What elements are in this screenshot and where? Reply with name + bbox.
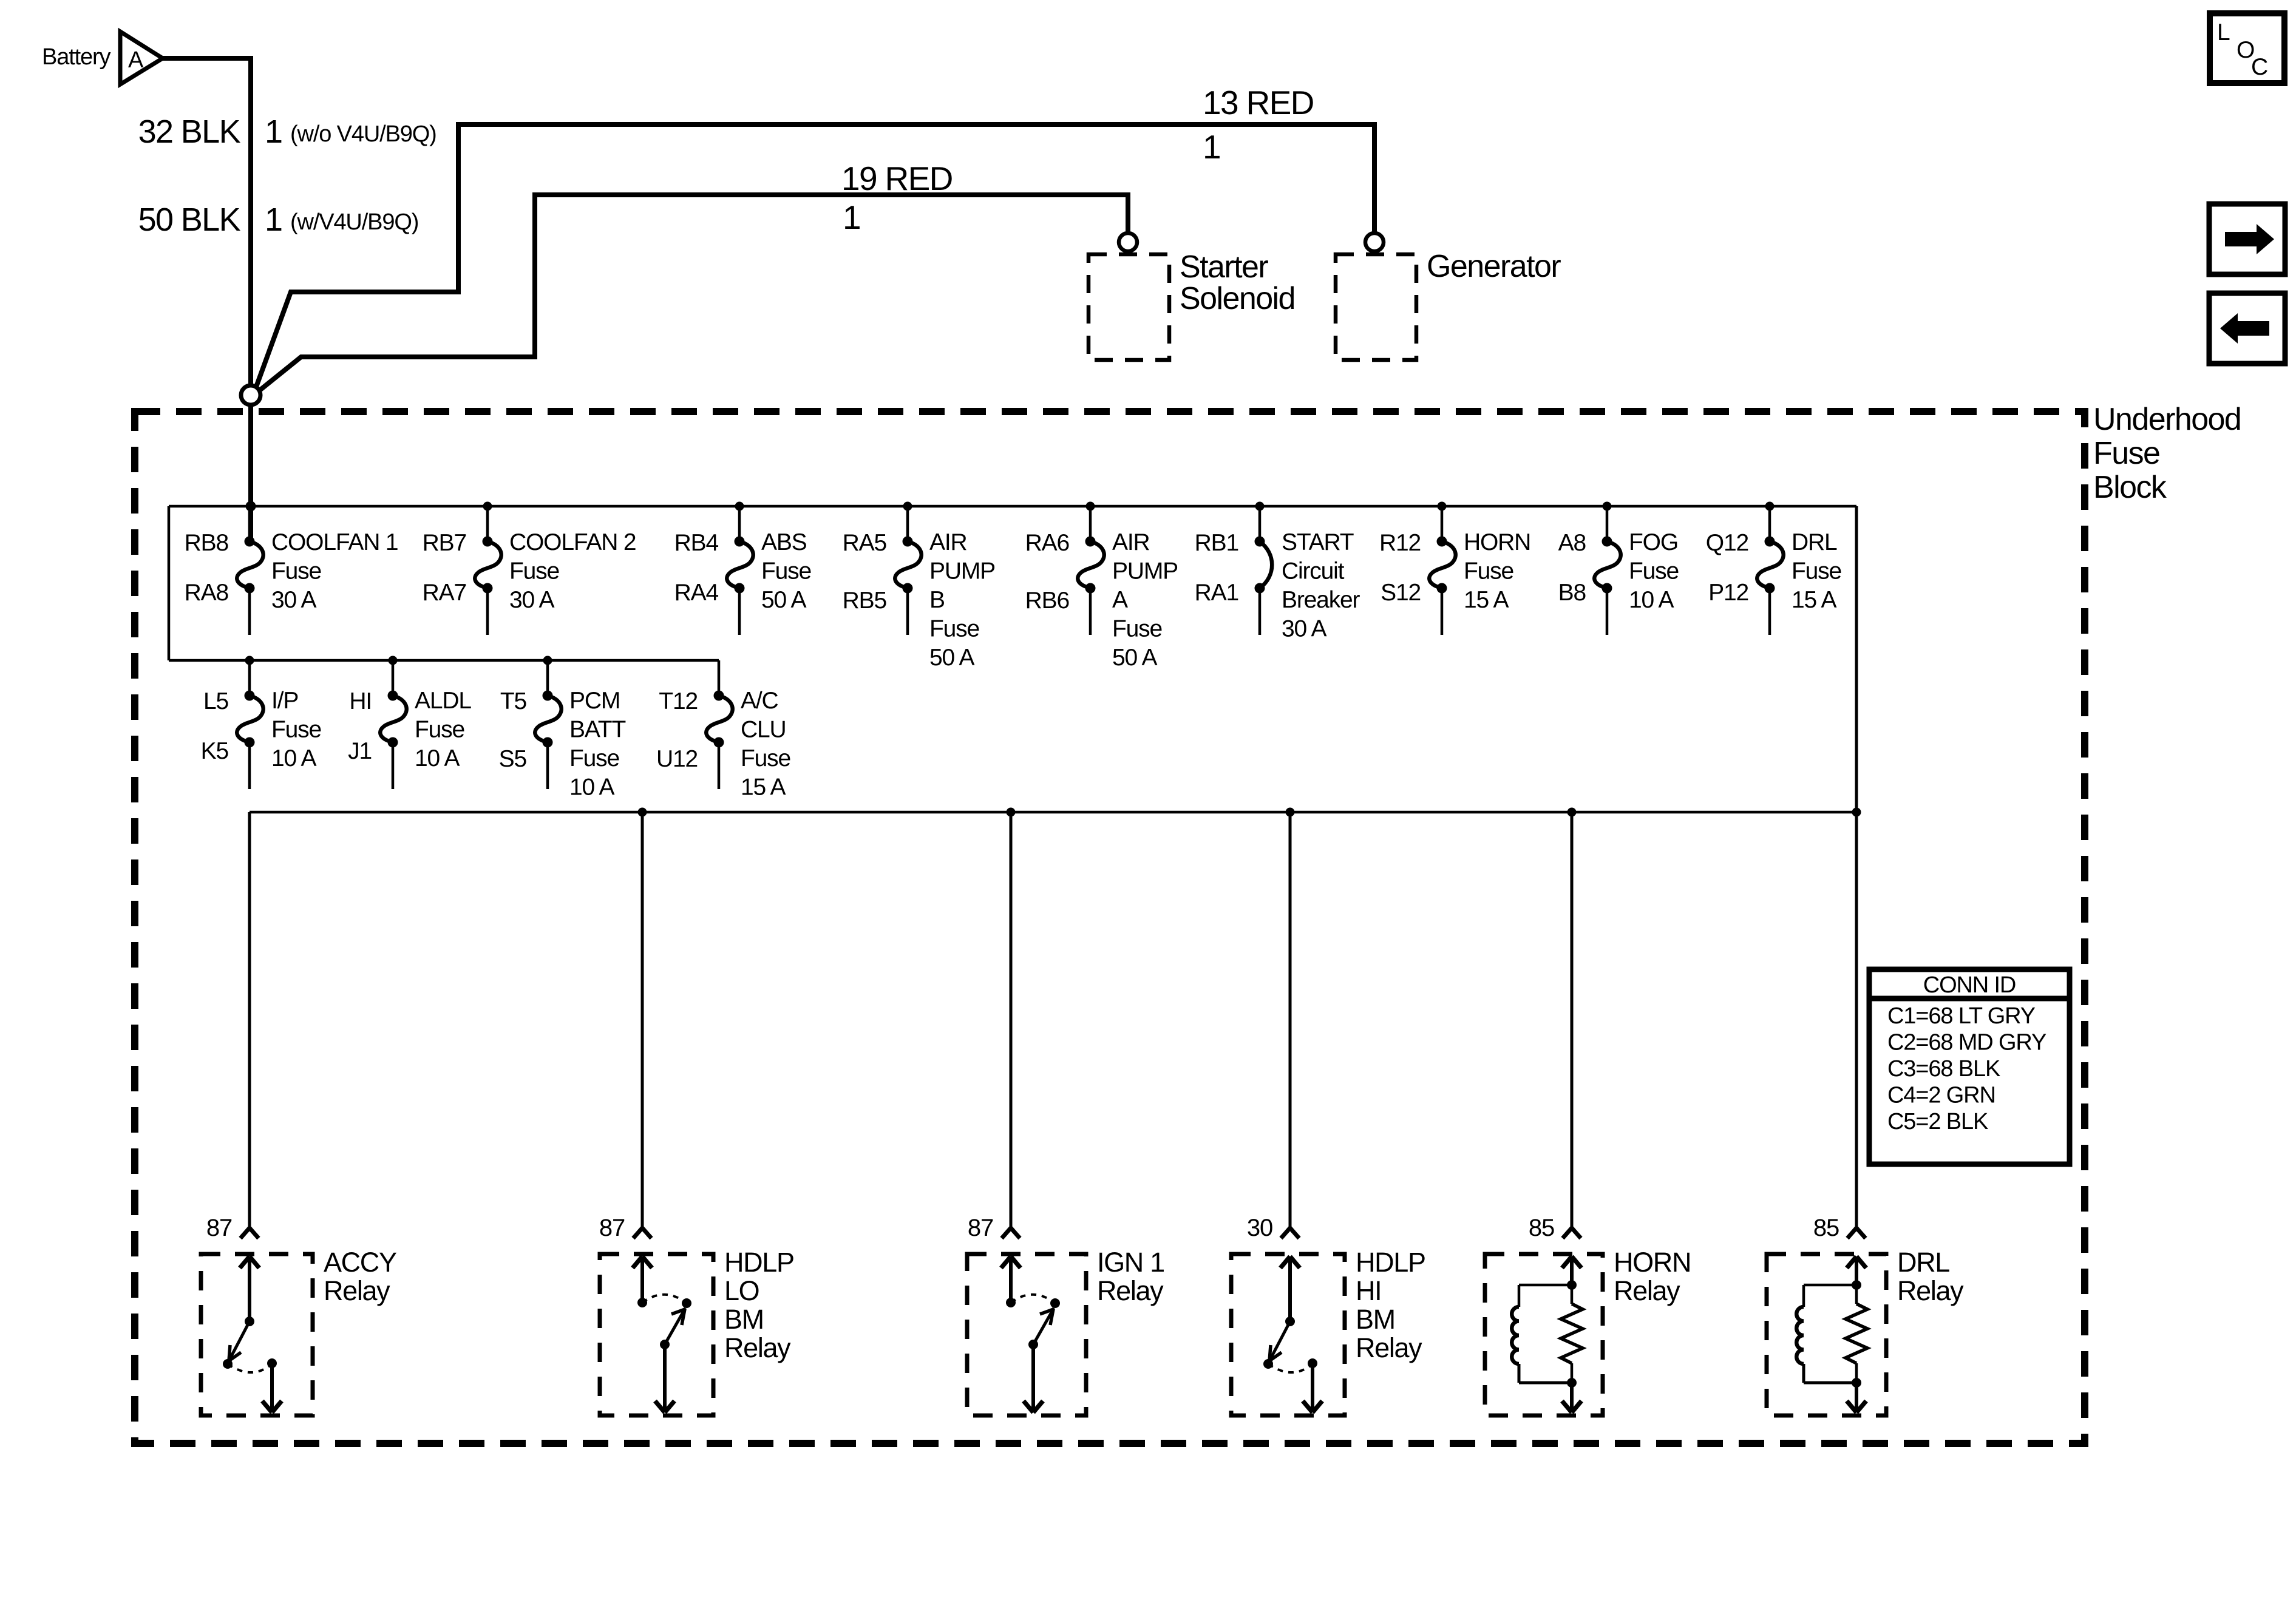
svg-text:PCM: PCM — [569, 688, 620, 714]
svg-text:COOLFAN 1: COOLFAN 1 — [271, 529, 398, 555]
svg-text:I/P: I/P — [271, 688, 298, 714]
svg-text:Fuse: Fuse — [2093, 436, 2159, 471]
svg-text:50 A: 50 A — [1112, 645, 1158, 671]
svg-text:10 A: 10 A — [271, 745, 317, 771]
svg-text:A: A — [128, 47, 144, 73]
svg-text:DRL: DRL — [1792, 529, 1837, 555]
svg-text:30 A: 30 A — [509, 587, 555, 613]
svg-text:Fuse: Fuse — [741, 745, 790, 771]
svg-text:Relay: Relay — [324, 1275, 390, 1306]
svg-text:Fuse: Fuse — [415, 717, 464, 743]
svg-text:Generator: Generator — [1427, 249, 1561, 284]
svg-text:C: C — [2251, 54, 2267, 80]
svg-text:LO: LO — [724, 1275, 759, 1306]
svg-text:C3=68 BLK: C3=68 BLK — [1887, 1056, 2000, 1082]
svg-text:13 RED: 13 RED — [1203, 84, 1314, 121]
svg-text:C2=68 MD GRY: C2=68 MD GRY — [1887, 1030, 2046, 1056]
svg-text:1: 1 — [265, 114, 282, 150]
svg-text:Battery: Battery — [42, 44, 111, 70]
svg-text:PUMP: PUMP — [1112, 558, 1178, 585]
svg-text:50 A: 50 A — [929, 645, 975, 671]
svg-text:RA8: RA8 — [185, 580, 228, 606]
svg-text:S5: S5 — [499, 746, 527, 772]
svg-text:START: START — [1282, 529, 1354, 555]
svg-text:C5=2 BLK: C5=2 BLK — [1887, 1109, 1988, 1134]
svg-text:R12: R12 — [1379, 530, 1421, 556]
svg-text:Fuse: Fuse — [271, 558, 321, 585]
svg-text:RA1: RA1 — [1195, 580, 1238, 606]
svg-text:Fuse: Fuse — [1792, 558, 1841, 585]
svg-text:87: 87 — [206, 1215, 232, 1241]
svg-text:1: 1 — [843, 198, 860, 236]
svg-text:85: 85 — [1813, 1215, 1839, 1241]
svg-text:IGN 1: IGN 1 — [1097, 1247, 1164, 1278]
svg-text:C1=68 LT GRY: C1=68 LT GRY — [1887, 1003, 2036, 1029]
svg-text:Fuse: Fuse — [929, 616, 979, 642]
svg-text:Fuse: Fuse — [1464, 558, 1513, 585]
svg-text:RB4: RB4 — [674, 530, 719, 556]
svg-text:30: 30 — [1247, 1215, 1272, 1241]
svg-text:AIR: AIR — [1112, 529, 1150, 555]
svg-text:Fuse: Fuse — [761, 558, 811, 585]
svg-text:DRL: DRL — [1897, 1247, 1949, 1278]
svg-text:BM: BM — [724, 1304, 764, 1335]
svg-text:CONN ID: CONN ID — [1923, 972, 2016, 998]
svg-text:RA4: RA4 — [674, 580, 719, 606]
svg-text:U12: U12 — [656, 746, 698, 772]
svg-text:BATT: BATT — [569, 717, 625, 743]
svg-text:J1: J1 — [348, 738, 372, 764]
svg-text:Fuse: Fuse — [1112, 616, 1162, 642]
svg-text:50 BLK: 50 BLK — [138, 202, 241, 238]
svg-text:15 A: 15 A — [1464, 587, 1509, 613]
svg-text:87: 87 — [968, 1215, 993, 1241]
svg-text:PUMP: PUMP — [929, 558, 995, 585]
svg-text:AIR: AIR — [929, 529, 967, 555]
svg-text:BM: BM — [1356, 1304, 1395, 1335]
svg-text:L5: L5 — [203, 688, 229, 714]
svg-text:RA5: RA5 — [843, 530, 887, 556]
svg-text:FOG: FOG — [1629, 529, 1678, 555]
svg-text:RA7: RA7 — [423, 580, 466, 606]
svg-text:L: L — [2217, 19, 2230, 46]
svg-text:RB1: RB1 — [1195, 530, 1238, 556]
svg-text:Fuse: Fuse — [271, 717, 321, 743]
svg-text:RB8: RB8 — [185, 530, 228, 556]
svg-text:P12: P12 — [1708, 580, 1748, 606]
svg-text:A/C: A/C — [741, 688, 778, 714]
svg-text:RB5: RB5 — [843, 588, 887, 614]
svg-text:RB6: RB6 — [1025, 588, 1069, 614]
svg-text:30 A: 30 A — [1282, 616, 1327, 642]
svg-text:RB7: RB7 — [423, 530, 466, 556]
svg-text:30 A: 30 A — [271, 587, 317, 613]
svg-text:ALDL: ALDL — [415, 688, 471, 714]
svg-text:Relay: Relay — [1356, 1332, 1422, 1363]
svg-text:10 A: 10 A — [569, 775, 615, 801]
svg-text:A: A — [1112, 587, 1128, 613]
svg-text:(w/o V4U/B9Q): (w/o V4U/B9Q) — [290, 121, 436, 147]
svg-text:Relay: Relay — [1897, 1275, 1964, 1306]
svg-text:ACCY: ACCY — [324, 1247, 397, 1278]
svg-text:Relay: Relay — [724, 1332, 791, 1363]
svg-text:CLU: CLU — [741, 717, 786, 743]
svg-text:K5: K5 — [201, 738, 229, 764]
svg-text:HI: HI — [1356, 1275, 1381, 1306]
svg-text:Underhood: Underhood — [2093, 402, 2241, 437]
svg-text:50 A: 50 A — [761, 587, 807, 613]
svg-text:32 BLK: 32 BLK — [138, 114, 241, 150]
svg-text:S12: S12 — [1381, 580, 1421, 606]
svg-text:Fuse: Fuse — [569, 745, 619, 771]
svg-text:Fuse: Fuse — [1629, 558, 1679, 585]
svg-text:15 A: 15 A — [1792, 587, 1837, 613]
svg-text:ABS: ABS — [761, 529, 807, 555]
svg-text:1: 1 — [1203, 128, 1220, 166]
svg-text:1: 1 — [265, 202, 282, 238]
svg-text:HI: HI — [349, 688, 372, 714]
svg-text:HORN: HORN — [1464, 529, 1530, 555]
svg-text:B: B — [929, 587, 945, 613]
svg-text:B8: B8 — [1558, 580, 1586, 606]
svg-text:COOLFAN 2: COOLFAN 2 — [509, 529, 636, 555]
svg-text:Block: Block — [2093, 470, 2167, 505]
svg-text:10 A: 10 A — [415, 745, 460, 771]
svg-text:T5: T5 — [500, 688, 527, 714]
svg-text:Breaker: Breaker — [1282, 587, 1360, 613]
svg-text:10 A: 10 A — [1629, 587, 1674, 613]
svg-text:C4=2 GRN: C4=2 GRN — [1887, 1083, 1995, 1108]
svg-text:HORN: HORN — [1614, 1247, 1691, 1278]
svg-text:Relay: Relay — [1097, 1275, 1164, 1306]
svg-text:T12: T12 — [659, 688, 698, 714]
svg-text:Starter: Starter — [1180, 249, 1268, 285]
svg-text:19 RED: 19 RED — [841, 160, 953, 197]
svg-text:87: 87 — [599, 1215, 625, 1241]
svg-text:A8: A8 — [1558, 530, 1586, 556]
svg-text:Relay: Relay — [1614, 1275, 1680, 1306]
svg-text:RA6: RA6 — [1025, 530, 1069, 556]
svg-text:(w/V4U/B9Q): (w/V4U/B9Q) — [290, 209, 418, 235]
svg-text:Fuse: Fuse — [509, 558, 559, 585]
svg-text:Solenoid: Solenoid — [1180, 281, 1295, 316]
svg-text:Q12: Q12 — [1706, 530, 1748, 556]
svg-text:15 A: 15 A — [741, 775, 786, 801]
svg-text:HDLP: HDLP — [1356, 1247, 1425, 1278]
svg-text:HDLP: HDLP — [724, 1247, 794, 1278]
svg-text:85: 85 — [1529, 1215, 1554, 1241]
svg-text:Circuit: Circuit — [1282, 558, 1345, 585]
